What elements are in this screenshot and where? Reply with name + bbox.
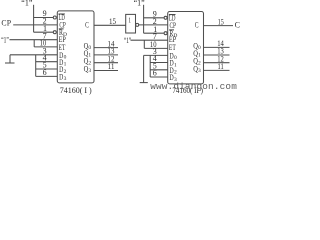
svg-text:0: 0: [198, 45, 201, 51]
svg-text:15: 15: [109, 17, 116, 26]
svg-text:2: 2: [88, 60, 91, 66]
svg-text:2: 2: [198, 60, 201, 66]
svg-text:www.diangon.com: www.diangon.com: [150, 81, 237, 92]
svg-text:1: 1: [88, 53, 91, 59]
svg-text:15: 15: [218, 18, 224, 27]
svg-text:0: 0: [174, 55, 177, 61]
svg-text:11: 11: [108, 62, 115, 71]
svg-text:“1”: “1”: [1, 35, 9, 44]
svg-text:3: 3: [64, 76, 67, 82]
svg-text:1: 1: [128, 17, 131, 24]
svg-text:0: 0: [88, 45, 91, 51]
svg-text:2: 2: [64, 69, 67, 75]
svg-text:“1”: “1”: [134, 0, 146, 7]
svg-text:C: C: [85, 20, 89, 29]
svg-text:C: C: [235, 21, 240, 30]
svg-text:74160( I ): 74160( I ): [60, 86, 92, 95]
svg-text:3: 3: [88, 68, 91, 74]
svg-text:1: 1: [64, 62, 67, 68]
svg-text:3: 3: [198, 68, 201, 74]
svg-text:2: 2: [174, 70, 177, 76]
svg-text:CP: CP: [1, 19, 11, 28]
svg-text:6: 6: [153, 69, 157, 78]
svg-text:6: 6: [43, 68, 47, 77]
svg-text:11: 11: [218, 62, 224, 71]
svg-text:1: 1: [198, 53, 201, 59]
svg-text:“1”: “1”: [21, 0, 33, 7]
svg-text:0: 0: [64, 55, 67, 61]
svg-text:C: C: [195, 21, 199, 30]
svg-text:1: 1: [174, 62, 177, 68]
svg-text:“1”: “1”: [124, 36, 132, 45]
svg-text:ET: ET: [169, 43, 176, 52]
